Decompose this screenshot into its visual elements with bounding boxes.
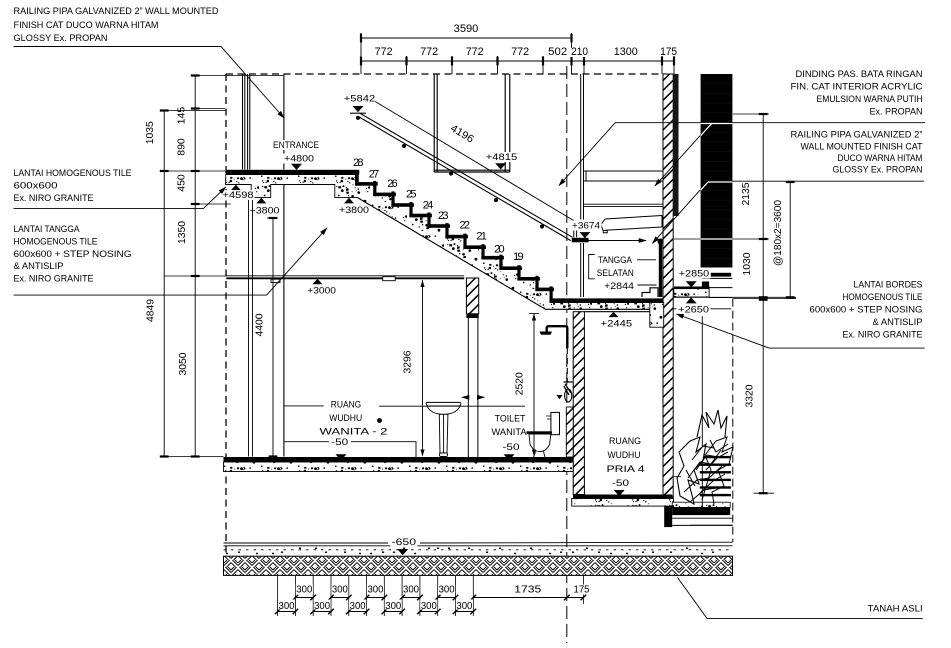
svg-text:21: 21 [476, 231, 487, 243]
svg-text:+5842: +5842 [344, 94, 376, 105]
stair flight concrete stipple [358, 175, 664, 310]
level -650 [390, 536, 417, 547]
dashed line below black wall [732, 299, 734, 542]
svg-text:DINDING PAS. BATA RINGAN: DINDING PAS. BATA RINGAN [796, 69, 923, 80]
svg-text:+2844: +2844 [604, 281, 634, 292]
plant scribble [677, 437, 706, 504]
svg-text:DUCO WARNA HITAM: DUCO WARNA HITAM [838, 153, 923, 164]
selatan sloped landing slab [601, 216, 662, 233]
svg-text:175: 175 [574, 585, 590, 596]
mixer and hand shower [564, 382, 573, 395]
svg-text:TANAH ASLI: TANAH ASLI [868, 604, 923, 615]
svg-text:Ex. NIRO GRANITE: Ex. NIRO GRANITE [14, 274, 94, 285]
dim 2135/1030 [762, 114, 764, 297]
section boundary dashed top [226, 73, 664, 75]
svg-text:1300: 1300 [614, 46, 638, 58]
level +3800 left [256, 198, 266, 204]
svg-text:300: 300 [278, 601, 294, 612]
svg-text:210: 210 [571, 46, 588, 58]
svg-text:600x600: 600x600 [14, 181, 58, 192]
toilet-pria partition wall hatched [573, 312, 584, 495]
black wall elevation [701, 74, 733, 268]
tangga selatan labels [595, 255, 635, 265]
plant louver bars [700, 456, 731, 458]
svg-text:+2850: +2850 [679, 269, 709, 280]
railing wall brackets [402, 144, 406, 148]
shower pipe [547, 326, 568, 348]
svg-text:+3800: +3800 [339, 205, 369, 216]
door leaf lines [468, 318, 478, 457]
stair soffit line [358, 198, 651, 310]
svg-text:300: 300 [439, 585, 455, 596]
railing end post and plate [574, 221, 577, 237]
svg-text:600x600 + STEP NOSING: 600x600 + STEP NOSING [14, 249, 132, 260]
svg-text:Ex. NIRO GRANITE: Ex. NIRO GRANITE [843, 329, 923, 340]
top dimension 3590 [361, 37, 572, 39]
left outer dim line 1035/4849 [163, 111, 165, 457]
svg-text:300: 300 [314, 601, 330, 612]
svg-text:300: 300 [421, 601, 437, 612]
svg-text:ENTRANCE: ENTRANCE [273, 140, 319, 151]
wanita floor slab [224, 457, 574, 462]
ground level lines [224, 542, 733, 546]
svg-text:LANTAI BORDES: LANTAI BORDES [854, 280, 923, 291]
svg-text:Ex. PROPAN: Ex. PROPAN [870, 107, 923, 118]
pier below wall [664, 506, 672, 527]
svg-text:LANTAI TANGGA: LANTAI TANGGA [14, 224, 81, 235]
under-stair wall lintel cap [466, 314, 478, 318]
svg-text:@180x2=3600: @180x2=3600 [773, 200, 784, 266]
svg-text:+3800: +3800 [250, 206, 280, 217]
svg-text:4849: 4849 [146, 299, 157, 322]
door frame lines below beam [249, 198, 253, 457]
svg-text:RUANG: RUANG [331, 400, 361, 411]
svg-text:TANGGA: TANGGA [598, 255, 633, 266]
selatan first steps at landing [642, 288, 658, 297]
svg-text:WALL MOUNTED FINISH CAT: WALL MOUNTED FINISH CAT [801, 141, 923, 152]
landing drop beam at wall [650, 303, 664, 328]
bordes +2850 slabs [711, 273, 731, 277]
level +2850 [678, 268, 711, 279]
svg-text:450: 450 [177, 174, 188, 192]
svg-text:3296: 3296 [403, 350, 414, 373]
svg-text:PRIA 4: PRIA 4 [607, 464, 645, 475]
svg-text:300: 300 [456, 601, 472, 612]
shower riser pipe dashed [566, 348, 568, 382]
svg-text:502: 502 [548, 46, 567, 58]
top dimension chain [361, 60, 674, 62]
section boundary dashed left [225, 74, 227, 575]
level +4598 [231, 185, 241, 191]
svg-text:23: 23 [438, 210, 449, 222]
washbasin [426, 402, 461, 406]
slope dim line 4196 [375, 102, 574, 221]
wall line x284 [283, 74, 285, 457]
level +3674 [571, 221, 602, 231]
wanita -50 [284, 442, 416, 457]
railing pipe lines [359, 113, 572, 241]
svg-text:WANITA: WANITA [492, 427, 528, 438]
level +3800 right [344, 198, 354, 204]
level +2650 [686, 297, 697, 303]
svg-text:3320: 3320 [744, 384, 755, 407]
svg-text:26: 26 [387, 178, 398, 190]
svg-text:19: 19 [513, 251, 524, 263]
svg-text:1030: 1030 [742, 252, 753, 275]
right extension lines [674, 114, 796, 493]
svg-text:2520: 2520 [514, 372, 525, 395]
svg-text:FIN. CAT INTERIOR ACRYLIC: FIN. CAT INTERIOR ACRYLIC [791, 82, 923, 93]
svg-text:28: 28 [353, 157, 364, 169]
svg-text:WUDHU: WUDHU [329, 413, 362, 424]
grid axis dashed line [566, 66, 568, 643]
svg-text:Ex. NIRO GRANITE: Ex. NIRO GRANITE [14, 193, 94, 204]
bottom dim row B [278, 611, 474, 613]
svg-text:24: 24 [423, 200, 434, 212]
ceiling line +3000 [226, 275, 464, 277]
level +4815 [485, 152, 519, 162]
svg-text:RUANG: RUANG [609, 436, 641, 447]
svg-text:TOILET: TOILET [495, 414, 526, 425]
svg-text:+3000: +3000 [307, 286, 336, 297]
svg-text:145: 145 [177, 106, 188, 124]
dim 2520 [533, 314, 535, 457]
svg-text:1035: 1035 [145, 121, 156, 144]
svg-text:+4800: +4800 [284, 154, 314, 165]
svg-text:RAILING PIPA GALVANIZED 2” WAL: RAILING PIPA GALVANIZED 2” WALL MOUNTED [14, 6, 219, 17]
svg-text:1350: 1350 [177, 221, 188, 244]
entrance floor slab concrete [226, 175, 359, 198]
window jambs and sill [434, 74, 510, 172]
toilet dado strip [566, 407, 573, 457]
pavement outside [672, 502, 730, 507]
svg-text:300: 300 [385, 601, 401, 612]
svg-text:3590: 3590 [454, 23, 479, 35]
svg-text:-50: -50 [503, 442, 520, 453]
svg-text:+4598: +4598 [223, 190, 254, 201]
shower head [539, 332, 552, 335]
svg-text:300: 300 [350, 601, 366, 612]
svg-text:772: 772 [511, 46, 529, 58]
cut wall hatched [663, 74, 673, 506]
floor slab beyond elevation [584, 171, 664, 181]
svg-text:1735: 1735 [514, 585, 542, 596]
level +2445 [609, 312, 619, 317]
svg-text:22: 22 [459, 220, 470, 232]
leader lines visible crossing black wall [701, 124, 733, 240]
svg-text:300: 300 [403, 585, 419, 596]
pria floor slab [573, 495, 672, 499]
selatan upper rail lines [584, 204, 663, 206]
svg-text:27: 27 [369, 169, 380, 181]
foundation witness lines [278, 576, 584, 616]
svg-text:+3674: +3674 [572, 221, 600, 232]
svg-text:772: 772 [420, 46, 438, 58]
svg-text:300: 300 [367, 585, 383, 596]
svg-text:772: 772 [466, 46, 484, 58]
entrance floor finish thick line [226, 170, 360, 175]
svg-text:WANITA - 2: WANITA - 2 [320, 427, 388, 438]
level +3000 [313, 279, 323, 285]
svg-text:LANTAI HOMOGENOUS TILE: LANTAI HOMOGENOUS TILE [14, 168, 132, 179]
svg-text:& ANTISLIP: & ANTISLIP [14, 261, 64, 272]
dim 3320 [762, 300, 764, 494]
landing bordes top thick line [550, 298, 664, 303]
svg-text:-50: -50 [331, 437, 348, 448]
svg-text:2135: 2135 [741, 182, 752, 205]
svg-text:300: 300 [332, 585, 348, 596]
svg-text:EMULSION WARNA PUTIH: EMULSION WARNA PUTIH [817, 94, 923, 105]
ceiling fixture notches [271, 279, 280, 282]
dim 3296 [422, 280, 424, 456]
svg-text:& ANTISLIP: & ANTISLIP [873, 317, 923, 328]
svg-text:+2445: +2445 [601, 319, 633, 330]
svg-text:25: 25 [406, 189, 417, 201]
svg-text:-650: -650 [392, 537, 417, 548]
svg-text:175: 175 [660, 46, 677, 58]
door swing arrows [462, 396, 468, 398]
svg-text:RAILING PIPA GALVANIZED 2”: RAILING PIPA GALVANIZED 2” [791, 130, 923, 141]
lean concrete dots [226, 553, 228, 554]
svg-text:GLOSSY Ex. PROPAN: GLOSSY Ex. PROPAN [833, 165, 923, 176]
entrance label [271, 140, 321, 150]
dim 4400 [272, 218, 274, 457]
left extension lines [164, 76, 283, 457]
svg-text:20: 20 [494, 243, 505, 255]
svg-text:+2650: +2650 [678, 305, 709, 316]
selatan direction arrow [588, 240, 646, 242]
svg-text:4400: 4400 [254, 313, 265, 336]
svg-text:SELATAN: SELATAN [597, 268, 634, 279]
left inner dim line [194, 76, 196, 457]
toilet wc [551, 412, 560, 434]
window mullion left wall [243, 74, 250, 170]
svg-text:600x600 + STEP NOSING: 600x600 + STEP NOSING [810, 305, 923, 316]
tangga selatan wall [581, 74, 584, 297]
svg-text:FINISH CAT DUCO WARNA HITAM: FINISH CAT DUCO WARNA HITAM [14, 20, 159, 31]
dark finish strip [673, 74, 678, 216]
dim @180x2=3600 [789, 182, 791, 297]
pria room ceiling line [584, 311, 650, 313]
bottom dim row A [295, 597, 583, 599]
svg-text:GLOSSY Ex. PROPAN: GLOSSY Ex. PROPAN [14, 33, 108, 44]
under-stair wall hatched [466, 278, 478, 314]
svg-text:3050: 3050 [178, 352, 189, 375]
ground hatch band (tanah) [224, 556, 733, 575]
planter vertical line [701, 316, 703, 505]
svg-text:772: 772 [375, 46, 393, 58]
svg-text:HOMOGENOUS TILE: HOMOGENOUS TILE [843, 292, 923, 303]
landing rail post [659, 243, 662, 297]
stair treads and risers [355, 170, 358, 185]
svg-text:+4815: +4815 [486, 152, 518, 163]
svg-text:WUDHU: WUDHU [608, 450, 641, 461]
svg-text:890: 890 [177, 138, 188, 156]
svg-text:-50: -50 [612, 478, 629, 489]
svg-text:300: 300 [296, 585, 312, 596]
svg-text:HOMOGENOUS TILE: HOMOGENOUS TILE [14, 236, 98, 247]
